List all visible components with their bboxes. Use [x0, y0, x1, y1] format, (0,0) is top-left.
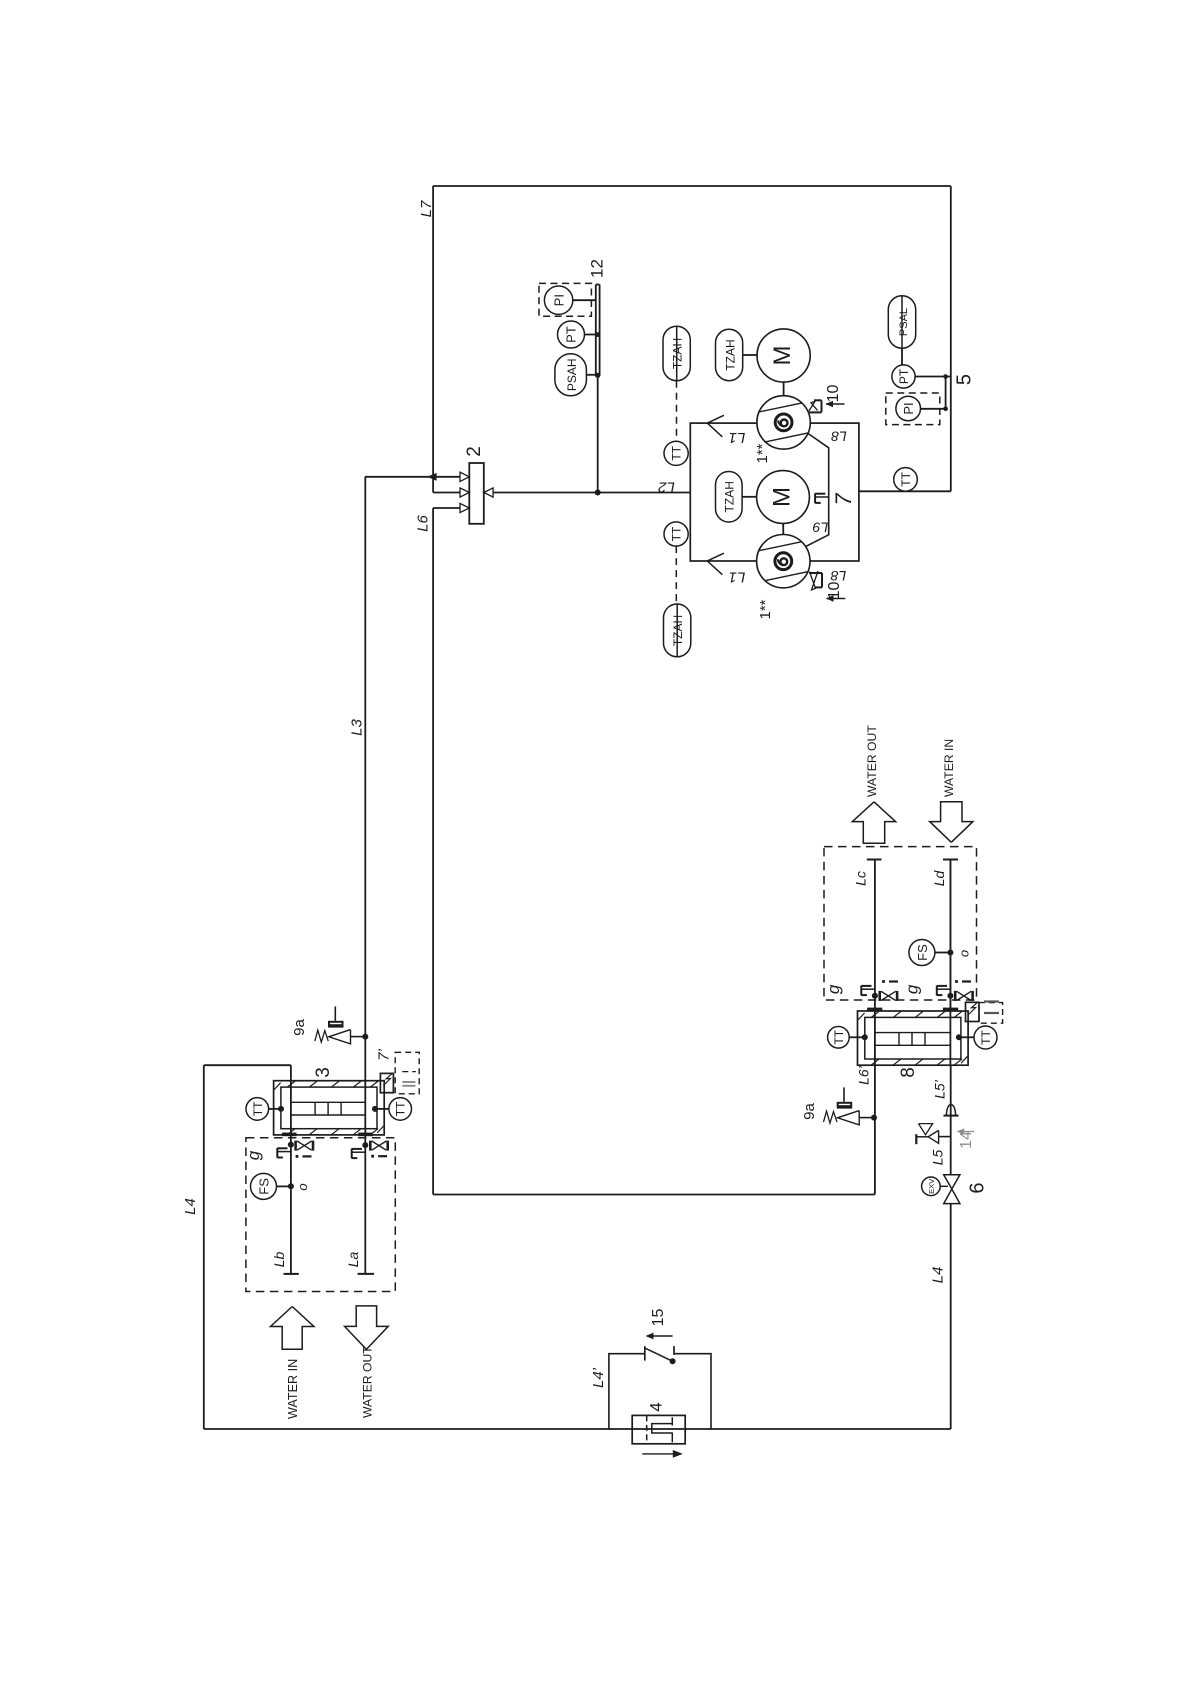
- svg-text:M: M: [769, 487, 796, 507]
- svg-text:9a: 9a: [801, 1103, 818, 1120]
- svg-text:L4’: L4’: [590, 1367, 607, 1388]
- svg-text:g: g: [903, 984, 922, 994]
- svg-text:4: 4: [647, 1402, 666, 1411]
- svg-text:PSAL: PSAL: [898, 308, 910, 336]
- svg-text:1**: 1**: [757, 599, 774, 619]
- svg-text:TT: TT: [670, 445, 684, 460]
- svg-text:15: 15: [650, 1309, 667, 1327]
- svg-text:TZAH: TZAH: [724, 339, 738, 370]
- svg-text:WATER OUT: WATER OUT: [361, 1346, 375, 1418]
- svg-text:10: 10: [825, 385, 842, 403]
- svg-text:L8: L8: [831, 428, 847, 444]
- svg-text:7’: 7’: [376, 1049, 393, 1061]
- svg-text:L5’: L5’: [931, 1079, 947, 1099]
- svg-text:L6’: L6’: [856, 1065, 872, 1085]
- svg-text:o: o: [295, 1183, 310, 1190]
- svg-text:PI: PI: [901, 402, 916, 414]
- svg-text:10: 10: [826, 582, 843, 600]
- svg-text:TT: TT: [394, 1101, 408, 1116]
- svg-text:WATER IN: WATER IN: [286, 1359, 300, 1419]
- svg-text:EXV: EXV: [927, 1179, 936, 1194]
- svg-text:TT: TT: [670, 526, 684, 541]
- svg-text:WATER OUT: WATER OUT: [865, 725, 879, 797]
- svg-text:PSAH: PSAH: [565, 358, 579, 391]
- svg-text:M: M: [769, 346, 796, 366]
- svg-text:TZAH: TZAH: [671, 338, 685, 369]
- svg-text:1**: 1**: [754, 443, 771, 463]
- svg-text:L2: L2: [658, 479, 675, 496]
- svg-text:L6: L6: [415, 515, 432, 532]
- svg-text:L7: L7: [418, 200, 435, 217]
- svg-text:9a: 9a: [291, 1019, 308, 1036]
- svg-text:g: g: [824, 984, 843, 994]
- svg-text:5: 5: [953, 374, 975, 385]
- svg-text:Lb: Lb: [271, 1252, 287, 1268]
- svg-text:g: g: [244, 1150, 263, 1160]
- svg-text:14: 14: [958, 1131, 975, 1149]
- svg-text:FS: FS: [915, 944, 930, 961]
- svg-text:TT: TT: [899, 471, 913, 486]
- svg-text:L9: L9: [813, 520, 829, 536]
- svg-text:L1: L1: [729, 568, 746, 585]
- svg-text:3: 3: [313, 1067, 334, 1078]
- svg-text:WATER IN: WATER IN: [942, 739, 956, 797]
- svg-text:8: 8: [898, 1067, 919, 1078]
- svg-text:L1: L1: [729, 429, 746, 446]
- svg-text:o: o: [957, 950, 972, 957]
- svg-text:FS: FS: [257, 1178, 272, 1195]
- svg-text:7: 7: [831, 493, 856, 506]
- svg-text:L8: L8: [831, 568, 847, 584]
- svg-text:6: 6: [967, 1182, 989, 1193]
- svg-text:TT: TT: [832, 1029, 846, 1044]
- svg-text:TZAH: TZAH: [723, 481, 737, 512]
- svg-text:2: 2: [464, 446, 485, 457]
- svg-text:Ld: Ld: [931, 870, 947, 887]
- svg-text:L3: L3: [349, 719, 366, 736]
- svg-text:PT: PT: [897, 368, 911, 384]
- svg-text:TZAH: TZAH: [671, 615, 685, 646]
- svg-text:PT: PT: [564, 326, 579, 343]
- svg-text:L4: L4: [930, 1267, 947, 1284]
- svg-text:12: 12: [588, 259, 607, 278]
- svg-text:TT: TT: [251, 1101, 265, 1116]
- svg-text:L5: L5: [930, 1150, 946, 1166]
- svg-text:PI: PI: [552, 294, 567, 306]
- svg-text:Lc: Lc: [853, 871, 869, 886]
- svg-text:La: La: [345, 1252, 361, 1268]
- svg-text:L4: L4: [182, 1198, 199, 1215]
- svg-text:TT: TT: [979, 1030, 993, 1045]
